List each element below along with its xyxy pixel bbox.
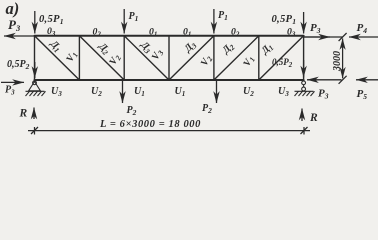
svg-text:R: R: [309, 112, 318, 124]
diagonal D3 left: [124, 36, 169, 80]
top chord: [35, 35, 304, 37]
force arrow 0,5P1 right end: [303, 12, 305, 34]
force arrow P3 bottom-left: [1, 81, 24, 83]
force arrow P3 top-left: [4, 35, 34, 37]
reaction arrow R right: [301, 109, 303, 122]
force arrow P5 bottom-right pointing left: [356, 79, 378, 81]
force arrow 0,5P2 left end bottom: [34, 62, 36, 78]
diagonal D1 right: [259, 36, 304, 80]
force arrow P2 bottom node4: [216, 81, 218, 103]
support pin left: [26, 81, 46, 96]
end post right: [303, 36, 305, 80]
diagonal D3 right: [169, 36, 214, 80]
vertical V1 right: [258, 36, 260, 80]
bottom chord: [35, 79, 304, 81]
force arrow 0,5P2 right end bottom: [303, 60, 305, 78]
force arrow P4 top-right pointing left: [349, 36, 378, 38]
vertical V2 left: [123, 36, 125, 80]
right extension line top with P3 arrow: [304, 36, 343, 38]
vertical V3 center: [168, 36, 170, 80]
diagonal D2 left: [79, 36, 124, 80]
diagonal D2 right: [214, 36, 259, 80]
svg-text:3000: 3000: [332, 51, 343, 72]
dimension line 3000 vertical: [339, 33, 347, 84]
force arrow P2 bottom node2: [122, 81, 124, 103]
reaction arrow R left: [33, 108, 35, 120]
vertical V2 right: [213, 36, 215, 80]
diagonal D1 left: [35, 36, 80, 80]
end post left: [34, 36, 36, 80]
force arrow P1 node4: [213, 9, 215, 34]
force arrow 0,5P1 left end: [34, 11, 36, 34]
support roller right: [295, 81, 315, 96]
svg-text:а): а): [6, 0, 20, 18]
right extension line bottom with P3 arrow pointing left: [307, 79, 342, 81]
force arrow P1 node2: [123, 9, 125, 34]
svg-text:L = 6×3000 = 18 000: L = 6×3000 = 18 000: [99, 119, 201, 130]
svg-text:R: R: [19, 108, 28, 120]
vertical V1 left: [78, 36, 80, 80]
bottom dimension line L: [28, 127, 310, 135]
